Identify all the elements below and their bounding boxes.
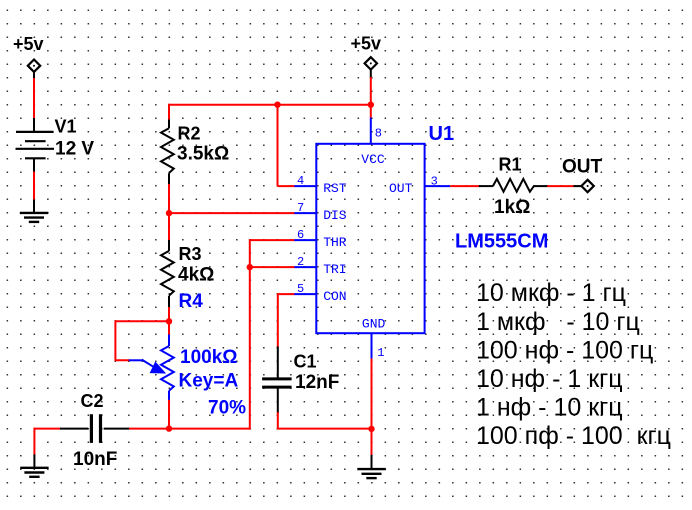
svg-text:100 пф - 100 кгц: 100 пф - 100 кгц [476,422,671,450]
svg-text:3.5kΩ: 3.5kΩ [177,143,229,164]
svg-text:1: 1 [377,346,384,360]
svg-text:1 мкф - 10 гц: 1 мкф - 10 гц [476,308,640,336]
svg-text:THR: THR [323,235,347,250]
svg-text:2: 2 [297,255,304,269]
svg-text:1 нф - 10 кгц: 1 нф - 10 кгц [476,394,623,422]
svg-text:7: 7 [297,201,304,215]
svg-text:4: 4 [297,174,304,188]
svg-text:V1: V1 [55,117,77,137]
svg-text:TRI: TRI [323,262,346,277]
svg-text:10nF: 10nF [73,449,117,470]
svg-text:12nF: 12nF [295,372,339,393]
svg-text:VCC: VCC [361,152,385,167]
svg-text:3: 3 [431,175,438,189]
svg-text:C1: C1 [294,351,317,371]
svg-text:C2: C2 [81,391,104,411]
svg-text:GND: GND [362,317,386,332]
svg-text:+5v: +5v [13,34,44,54]
svg-text:RST: RST [323,181,347,196]
svg-text:10 нф - 1 кгц: 10 нф - 1 кгц [476,365,623,393]
svg-text:CON: CON [323,289,346,304]
svg-text:R3: R3 [179,244,202,264]
svg-text:5: 5 [297,282,304,296]
svg-text:U1: U1 [429,123,455,145]
svg-text:4kΩ: 4kΩ [178,265,214,286]
svg-text:R2: R2 [178,123,201,143]
svg-text:LM555CM: LM555CM [455,231,548,253]
svg-text:12 V: 12 V [55,138,94,159]
svg-text:100 нф - 100 гц: 100 нф - 100 гц [476,336,653,364]
svg-text:6: 6 [297,228,304,242]
svg-text:R1: R1 [499,154,522,174]
svg-text:+5v: +5v [351,34,382,54]
svg-text:1kΩ: 1kΩ [494,197,530,218]
svg-text:OUT: OUT [389,181,413,196]
svg-text:70%: 70% [208,398,246,419]
svg-text:DIS: DIS [323,208,347,223]
svg-text:OUT: OUT [562,157,603,178]
svg-text:8: 8 [375,126,382,140]
svg-text:10 мкф - 1 гц: 10 мкф - 1 гц [476,279,626,307]
svg-text:R4: R4 [179,291,204,312]
svg-text:Key=A: Key=A [179,371,239,392]
svg-text:100kΩ: 100kΩ [180,347,238,368]
